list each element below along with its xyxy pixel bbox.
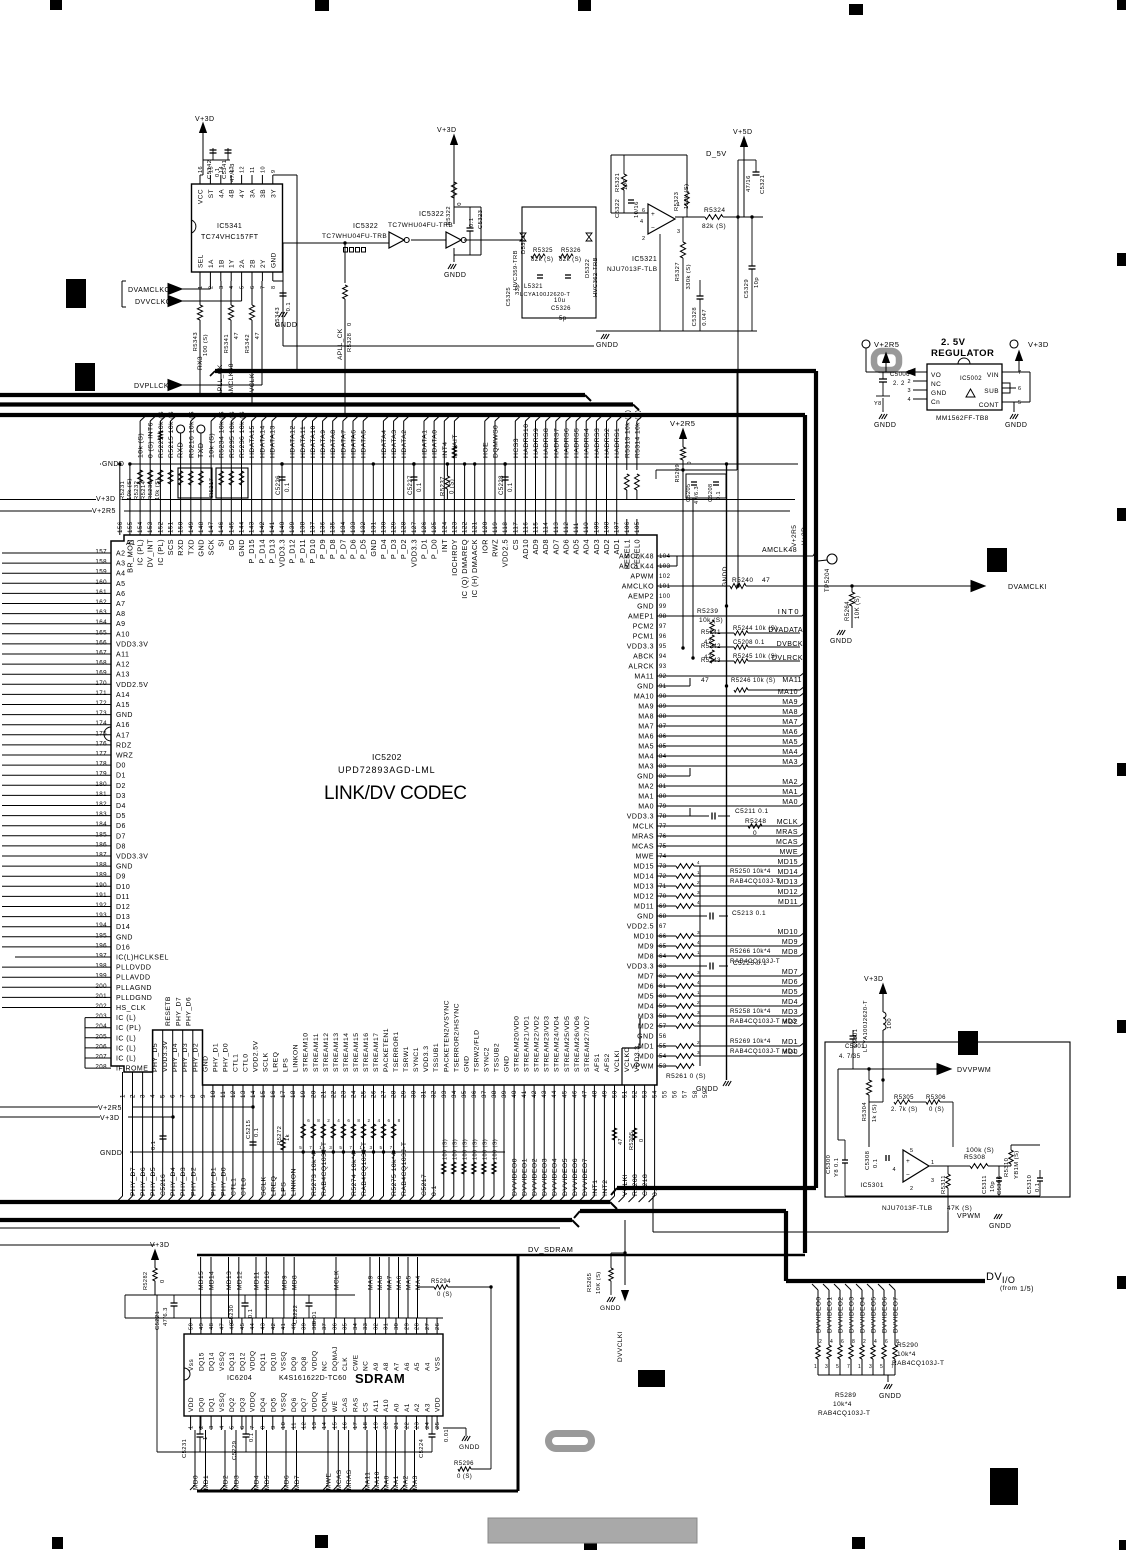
svg-text:RAB4CQ103J-T: RAB4CQ103J-T [401,1141,408,1196]
svg-text:TSRW1: TSRW1 [403,1046,410,1072]
svg-text:R5310: R5310 [1004,1158,1010,1177]
svg-text:100 (S): 100 (S) [493,1139,499,1160]
svg-text:SCS: SCS [166,539,175,555]
svg-text:0 (S): 0 (S) [449,479,455,494]
svg-text:V+2R5: V+2R5 [874,340,899,349]
svg-text:HADRS1: HADRS1 [614,428,621,458]
svg-text:198: 198 [95,963,107,970]
svg-text:HADRS4: HADRS4 [584,428,591,458]
svg-text:101: 101 [659,584,671,590]
svg-text:8: 8 [317,1118,320,1123]
svg-text:V+3D: V+3D [864,976,884,983]
svg-text:A8: A8 [116,611,125,618]
svg-text:DV_INT: DV_INT [146,539,155,568]
svg-text:C5222: C5222 [293,1305,299,1324]
svg-text:DVVIDEO3: DVVIDEO3 [542,1158,549,1196]
svg-text:70: 70 [659,894,667,900]
svg-text:NC: NC [363,1361,370,1371]
svg-text:VPWM: VPWM [957,1213,981,1220]
svg-text:AFS2: AFS2 [604,1053,611,1072]
svg-text:0: 0 [687,461,693,465]
svg-text:MA11: MA11 [365,1472,372,1490]
svg-text:V+3D: V+3D [437,127,457,134]
svg-text:10k (S): 10k (S) [138,433,145,458]
svg-text:MA8: MA8 [638,714,654,721]
svg-text:59: 59 [702,1090,709,1098]
svg-text:1Y: 1Y [229,259,236,268]
svg-text:0.1: 0.1 [508,482,514,492]
svg-text:A3: A3 [424,1403,431,1412]
svg-text:INT1: INT1 [592,1179,599,1196]
svg-text:INT0: INT0 [778,607,800,616]
svg-text:MD3: MD3 [782,1009,798,1016]
svg-text:C5229: C5229 [232,1441,238,1460]
svg-text:VCLKO: VCLKO [624,1047,631,1072]
svg-text:CS: CS [363,1402,370,1412]
svg-text:7: 7 [349,1145,352,1150]
svg-text:STREAM14: STREAM14 [343,1033,350,1072]
svg-text:GND: GND [637,914,654,921]
svg-text:MD8: MD8 [292,1275,299,1290]
svg-text:MCAS: MCAS [632,844,654,851]
svg-text:169: 169 [95,670,107,677]
svg-text:6: 6 [307,1118,310,1123]
svg-text:A17: A17 [116,732,130,739]
svg-text:R5240: R5240 [732,577,753,584]
svg-text:PHY_D2: PHY_D2 [190,1167,197,1196]
svg-text:58: 58 [659,1014,667,1020]
svg-text:P_D3: P_D3 [389,539,398,559]
svg-text:MA6: MA6 [396,1275,403,1290]
svg-text:DVVCLKO: DVVCLKO [135,299,172,306]
svg-text:A10: A10 [383,1399,390,1412]
svg-text:LPS: LPS [281,1182,288,1196]
svg-text:MD1: MD1 [203,1475,210,1490]
svg-text:2: 2 [368,1118,371,1123]
svg-text:A11: A11 [373,1400,380,1412]
svg-text:0.1: 0.1 [254,1128,260,1137]
svg-text:STREAM13: STREAM13 [333,1033,340,1072]
svg-text:A2: A2 [414,1403,421,1412]
svg-text:GNDD: GNDD [444,272,466,279]
svg-text:AD1: AD1 [612,539,621,555]
svg-text:−: − [906,1172,910,1179]
svg-text:MD4: MD4 [782,999,798,1006]
svg-text:C5228: C5228 [499,475,505,495]
svg-text:0: 0 [753,830,757,837]
svg-text:IC5321: IC5321 [632,256,657,263]
svg-text:STREAM12: STREAM12 [323,1033,330,1072]
svg-text:163: 163 [95,609,107,616]
svg-text:330k (S): 330k (S) [686,264,692,290]
svg-text:AMCLK48: AMCLK48 [619,554,654,561]
svg-text:AMCLK44: AMCLK44 [619,564,654,571]
svg-text:D5322: D5322 [585,259,591,278]
svg-text:VDD3.3: VDD3.3 [627,964,654,971]
svg-text:47/6.3: 47/6.3 [694,486,700,504]
svg-text:DVVIDEO6: DVVIDEO6 [882,1297,889,1333]
svg-text:MD15: MD15 [634,864,654,871]
svg-text:+: + [906,1158,910,1165]
svg-text:22: 22 [404,1422,410,1429]
svg-text:PHY_D3: PHY_D3 [182,1043,189,1072]
svg-text:0: 0 [347,322,353,326]
svg-text:201: 201 [95,993,107,1000]
svg-text:192: 192 [95,902,107,909]
svg-text:HDATA8: HDATA8 [330,429,337,458]
svg-text:12: 12 [302,1422,308,1429]
svg-text:VDD3.3: VDD3.3 [409,539,418,567]
svg-text:MD13: MD13 [226,1271,233,1290]
svg-text:MA3: MA3 [412,1475,419,1490]
svg-text:47: 47 [618,1138,624,1145]
svg-text:27: 27 [425,1323,431,1330]
svg-text:VDD3.3V: VDD3.3V [116,854,148,861]
svg-text:47/6.3: 47/6.3 [230,163,236,182]
svg-text:DVVIDEO4: DVVIDEO4 [860,1297,867,1333]
svg-text:VDDQ: VDDQ [311,1391,318,1412]
svg-text:SI: SI [217,539,226,547]
svg-text:A5: A5 [116,581,125,588]
svg-text:R5305: R5305 [894,1095,914,1101]
svg-text:0.1: 0.1 [417,482,423,492]
svg-text:11: 11 [250,166,256,173]
svg-text:D7: D7 [116,833,126,840]
svg-text:C5224: C5224 [419,1438,425,1458]
svg-text:VDDQ: VDDQ [311,1350,318,1371]
svg-text:Cn: Cn [931,399,940,406]
svg-text:V+2R5: V+2R5 [791,525,798,547]
svg-text:STREAM24/VD4: STREAM24/VD4 [554,1016,561,1072]
svg-text:R5327: R5327 [675,262,681,281]
svg-text:A3: A3 [116,561,125,568]
svg-text:D10: D10 [116,884,130,891]
svg-text:3B: 3B [260,189,267,198]
svg-text:V+3D: V+3D [195,116,215,123]
svg-text:3: 3 [825,1364,828,1370]
svg-text:186: 186 [95,841,107,848]
svg-text:98: 98 [659,614,667,620]
svg-text:206: 206 [95,1043,107,1050]
svg-text:GNDD: GNDD [874,422,896,429]
svg-text:STREAM11: STREAM11 [313,1033,320,1072]
svg-text:82k (S): 82k (S) [531,257,554,263]
svg-text:5: 5 [240,285,246,289]
svg-text:MA6: MA6 [638,734,654,741]
svg-text:MA3: MA3 [638,764,654,771]
svg-text:6: 6 [388,1118,391,1123]
svg-text:MA4: MA4 [782,749,798,756]
svg-text:172: 172 [95,700,107,707]
svg-text:HDATA1: HDATA1 [422,429,429,458]
svg-text:32: 32 [374,1323,380,1330]
svg-text:175: 175 [95,730,107,737]
svg-text:D12: D12 [116,904,130,911]
svg-text:DQ9: DQ9 [291,1356,298,1371]
svg-text:80: 80 [659,794,667,800]
svg-text:DQ14: DQ14 [209,1352,216,1371]
svg-text:0 (S): 0 (S) [929,1107,944,1113]
svg-text:D14: D14 [116,924,130,931]
svg-text:R5274 10k*4: R5274 10k*4 [351,1152,358,1196]
svg-text:96: 96 [659,634,667,640]
svg-text:30: 30 [394,1323,400,1330]
svg-text:2: 2 [863,1339,866,1345]
svg-text:2: 2 [327,1118,330,1123]
svg-text:A15: A15 [116,702,130,709]
svg-text:R5214: R5214 [141,480,147,500]
svg-text:0.1: 0.1 [249,1433,255,1442]
svg-text:D11: D11 [116,894,130,901]
svg-text:TXD: TXD [198,443,205,458]
svg-text:1: 1 [814,1364,817,1370]
svg-text:D0: D0 [116,763,126,770]
svg-text:R5282: R5282 [143,1272,149,1290]
svg-text:LREQ: LREQ [273,1052,280,1072]
svg-text:PHY_D0: PHY_D0 [222,1043,229,1072]
svg-text:GND: GND [463,1056,470,1072]
svg-text:V+3D: V+3D [96,496,116,503]
svg-text:DQMWS0: DQMWS0 [493,425,500,458]
svg-text:A9: A9 [116,621,125,628]
svg-text:VDD: VDD [188,1397,195,1412]
svg-text:MD7: MD7 [638,974,654,981]
svg-text:47/16: 47/16 [746,175,752,192]
svg-text:15: 15 [332,1422,338,1429]
svg-text:C5211 0.1: C5211 0.1 [735,808,769,815]
svg-text:MD3: MD3 [234,1475,241,1490]
svg-text:5: 5 [1018,400,1022,406]
svg-text:A13: A13 [116,672,130,679]
svg-text:11: 11 [291,1422,297,1429]
svg-text:92: 92 [659,674,667,680]
svg-text:C5301: C5301 [845,1044,865,1050]
svg-text:47: 47 [219,1323,225,1330]
svg-text:1: 1 [858,1364,861,1370]
svg-text:65: 65 [659,944,667,950]
svg-text:100 (S): 100 (S) [472,1139,478,1160]
svg-text:DV_SDRAM: DV_SDRAM [528,1245,573,1254]
svg-text:2A: 2A [239,259,246,268]
svg-text:SCLK: SCLK [263,1052,270,1072]
svg-text:204: 204 [95,1023,107,1030]
svg-text:IFIROME: IFIROME [116,1066,148,1073]
svg-text:PHY_D5: PHY_D5 [152,1043,159,1072]
svg-text:62: 62 [659,974,667,980]
svg-text:PHY_D4: PHY_D4 [172,1043,179,1072]
svg-text:R5237: R5237 [440,476,446,496]
svg-text:10k (S): 10k (S) [155,478,161,500]
svg-text:MA7: MA7 [638,724,654,731]
svg-text:10k (S): 10k (S) [127,478,133,500]
svg-text:4: 4 [378,1118,381,1123]
svg-text:Y8: Y8 [874,401,882,407]
svg-text:10k (S): 10k (S) [209,433,216,458]
svg-text:57: 57 [659,1024,667,1030]
svg-text:0.1: 0.1 [215,168,221,177]
svg-text:MD15: MD15 [198,1271,205,1290]
svg-text:P_D4: P_D4 [379,539,388,559]
svg-text:7: 7 [250,1425,256,1429]
svg-text:INT4: INT4 [442,441,449,458]
svg-text:1: 1 [198,285,204,289]
svg-text:DVVIDEO3: DVVIDEO3 [849,1297,856,1333]
svg-text:100 (S): 100 (S) [203,334,209,356]
svg-text:43: 43 [261,1323,267,1330]
svg-text:R5261 0 (S): R5261 0 (S) [666,1073,706,1080]
svg-text:188: 188 [95,862,107,869]
svg-text:HADRS2: HADRS2 [604,428,611,458]
svg-text:6: 6 [240,1425,246,1429]
svg-text:4B: 4B [229,189,236,198]
svg-text:3: 3 [219,285,225,289]
svg-text:3Y: 3Y [270,189,277,198]
svg-text:GNDD: GNDD [459,1444,480,1451]
svg-text:GND: GND [196,539,205,557]
svg-text:LREQ: LREQ [271,1176,278,1196]
svg-text:MCAS: MCAS [336,1469,343,1490]
svg-text:MD7: MD7 [294,1475,301,1490]
svg-text:A16: A16 [116,722,130,729]
svg-text:DVVIDEO0: DVVIDEO0 [512,1158,519,1196]
svg-text:TC74VHC157FT: TC74VHC157FT [201,234,259,241]
svg-text:R5245 10k (S): R5245 10k (S) [733,654,778,660]
svg-text:MD13: MD13 [778,879,798,886]
svg-text:IC (L): IC (L) [116,1015,136,1022]
svg-text:C5216: C5216 [160,1174,167,1196]
svg-text:LINK/DV CODEC: LINK/DV CODEC [324,783,467,804]
svg-text:HOE: HOE [482,442,489,458]
svg-text:TXD: TXD [186,539,195,555]
svg-text:MD12: MD12 [236,1271,243,1290]
svg-text:0.047: 0.047 [702,309,708,326]
svg-text:IC (L): IC (L) [116,1035,136,1042]
svg-text:IC (PL): IC (PL) [136,539,145,565]
svg-text:37: 37 [322,1323,328,1330]
svg-text:DVLRCK: DVLRCK [772,655,803,662]
svg-text:HADRS9: HADRS9 [533,428,540,458]
svg-text:DQ13: DQ13 [229,1352,236,1371]
svg-text:199: 199 [95,973,107,980]
svg-text:D2: D2 [116,783,126,790]
svg-text:MRAS: MRAS [632,834,654,841]
svg-text:194: 194 [95,922,107,929]
svg-text:9: 9 [271,169,277,173]
svg-text:D8: D8 [116,843,126,850]
svg-text:8: 8 [852,1339,855,1345]
svg-text:MM1562FF-TB8: MM1562FF-TB8 [936,415,989,422]
svg-text:R5232: R5232 [134,481,140,500]
svg-text:P_D8: P_D8 [328,539,337,559]
svg-text:HADRS5: HADRS5 [574,428,581,458]
svg-text:2: 2 [642,236,646,242]
svg-text:IC (L): IC (L) [116,1045,136,1052]
svg-text:47: 47 [762,577,770,584]
svg-text:MWE: MWE [326,1473,333,1490]
svg-text:207: 207 [95,1054,107,1061]
svg-text:165: 165 [95,629,107,636]
svg-text:R5321: R5321 [615,173,621,192]
svg-text:21: 21 [394,1422,400,1429]
svg-text:V+3D: V+3D [801,527,808,545]
svg-text:A7: A7 [394,1362,401,1371]
svg-text:60: 60 [659,994,667,1000]
svg-text:C5325: C5325 [506,287,512,306]
svg-text:RAB4CQ103J-T: RAB4CQ103J-T [730,878,780,885]
svg-text:VDD2.5V: VDD2.5V [253,1041,260,1072]
svg-text:VDD3.3: VDD3.3 [627,644,654,651]
svg-text:TSERROR2/HSYNC: TSERROR2/HSYNC [453,1003,460,1072]
svg-text:P_D14: P_D14 [257,539,266,564]
svg-text:MD11: MD11 [254,1271,261,1290]
svg-text:PHY_D0: PHY_D0 [220,1167,227,1196]
svg-text:168: 168 [95,660,107,667]
svg-text:HDATA15: HDATA15 [249,425,256,458]
svg-text:DVAMCLKI: DVAMCLKI [1008,584,1047,591]
svg-text:TSSUB2: TSSUB2 [494,1043,501,1072]
svg-text:4: 4 [907,397,911,403]
svg-text:RAS: RAS [352,1397,359,1412]
svg-text:4. 7/35: 4. 7/35 [839,1054,861,1060]
svg-text:59: 59 [659,1004,667,1010]
svg-text:MA2: MA2 [638,784,654,791]
svg-text:MD10: MD10 [634,934,654,941]
svg-text:9: 9 [271,1425,277,1429]
svg-text:R5311: R5311 [941,1175,947,1194]
svg-text:PHY_D1: PHY_D1 [210,1167,217,1196]
svg-text:0 (S): 0 (S) [437,1292,452,1298]
svg-text:DQ15: DQ15 [198,1352,205,1371]
svg-text:STREAM27/VD7: STREAM27/VD7 [584,1016,591,1072]
svg-text:VSSQ: VSSQ [219,1351,226,1371]
svg-text:208: 208 [95,1064,107,1071]
svg-text:(from: (from [1000,1285,1017,1292]
svg-text:MD8: MD8 [638,954,654,961]
svg-text:V+2R5: V+2R5 [92,508,116,515]
svg-text:99: 99 [659,604,667,610]
svg-text:10K (S): 10K (S) [855,596,861,620]
svg-text:D6: D6 [116,823,126,830]
svg-text:69: 69 [659,904,667,910]
svg-text:MD10: MD10 [264,1271,271,1290]
svg-text:47: 47 [704,655,712,661]
svg-text:C5221: C5221 [155,1311,161,1330]
svg-text:A10: A10 [116,631,130,638]
svg-text:GND: GND [116,864,133,871]
svg-text:VDD2.5V: VDD2.5V [116,682,148,689]
svg-text:MCAS: MCAS [776,839,798,846]
svg-text:RDZ: RDZ [116,742,132,749]
svg-text:VDD: VDD [435,1397,442,1412]
svg-text:PLLDVDD: PLLDVDD [116,965,151,972]
svg-text:GND: GND [237,539,246,557]
svg-text:10: 10 [260,166,266,173]
svg-text:RAB4CQ103J-T MD3: RAB4CQ103J-T MD3 [730,1018,797,1025]
svg-text:3: 3 [370,1145,373,1150]
svg-text:50: 50 [189,1323,195,1330]
svg-text:200: 200 [95,983,107,990]
svg-text:104: 104 [659,554,671,560]
svg-text:IC (H) DMAACK: IC (H) DMAACK [470,539,479,598]
svg-text:GND: GND [202,1056,209,1072]
svg-text:MA5: MA5 [406,1275,413,1290]
svg-text:DVVIDEO4: DVVIDEO4 [552,1158,559,1196]
svg-text:V+5D: V+5D [733,129,753,136]
svg-text:97: 97 [659,624,667,630]
svg-text:STREAM22/VD2: STREAM22/VD2 [534,1016,541,1072]
svg-text:RWZ: RWZ [491,539,500,557]
svg-text:4: 4 [874,1339,877,1345]
